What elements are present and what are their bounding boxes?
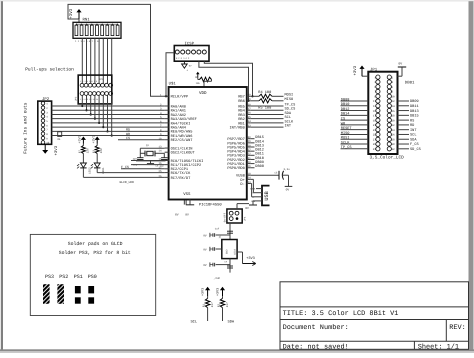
svg-text:28: 28: [391, 138, 395, 141]
svg-text:28: 28: [248, 144, 252, 147]
svg-text:0V: 0V: [398, 61, 402, 65]
svg-text:0V: 0V: [185, 213, 189, 216]
svg-text:Future Ins and outs: Future Ins and outs: [23, 102, 29, 154]
svg-text:0V: 0V: [203, 234, 207, 237]
svg-text:1 2 3 4 5 6 7 8 9: 1 2 3 4 5 6 7 8 9: [75, 40, 99, 43]
svg-text:33: 33: [248, 124, 252, 127]
svg-text:MOSI: MOSI: [341, 136, 350, 141]
svg-text:RD: RD: [410, 123, 414, 128]
svg-text:32: 32: [391, 148, 395, 151]
svg-text:25: 25: [373, 134, 377, 137]
svg-text:OSC2/CLKOUT: OSC2/CLKOUT: [171, 151, 196, 156]
svg-text:PS3: PS3: [45, 274, 54, 280]
svg-text:DB11: DB11: [410, 104, 419, 109]
svg-text:CS: CS: [126, 136, 130, 140]
svg-text:PS1: PS1: [74, 274, 83, 280]
svg-text:RESET: RESET: [341, 126, 353, 131]
svg-text:10: 10: [391, 95, 395, 98]
svg-text:GLCD_LED: GLCD_LED: [120, 181, 135, 184]
svg-text:JP4: JP4: [244, 216, 247, 221]
svg-text:DB12: DB12: [341, 107, 350, 112]
svg-text:U$1: U$1: [169, 81, 177, 86]
svg-text:PIC18F4550: PIC18F4550: [199, 202, 223, 207]
svg-text:18: 18: [391, 115, 395, 118]
svg-text:DB15: DB15: [410, 114, 419, 119]
svg-text:Solder pads on GLCD: Solder pads on GLCD: [68, 241, 123, 247]
svg-text:11: 11: [373, 100, 377, 103]
svg-text:SOSC: SOSC: [133, 158, 139, 161]
svg-text:0V: 0V: [203, 248, 207, 251]
svg-text:26: 26: [158, 175, 162, 178]
svg-text:0V: 0V: [245, 207, 249, 210]
svg-text:On-Off: On-Off: [223, 213, 226, 223]
svg-text:+3V3: +3V3: [54, 145, 59, 155]
svg-text:R3: R3: [92, 150, 95, 154]
svg-text:+3V3: +3V3: [246, 256, 255, 261]
svg-text:DB09: DB09: [410, 99, 419, 104]
svg-text:DB08: DB08: [341, 97, 350, 102]
svg-text:D-: D-: [240, 182, 244, 187]
svg-text:SCL: SCL: [410, 133, 416, 138]
svg-text:LE33: LE33: [233, 248, 236, 254]
svg-text:12: 12: [391, 100, 395, 103]
svg-text:23: 23: [248, 181, 252, 184]
svg-text:19: 19: [373, 119, 377, 122]
svg-text:38: 38: [248, 103, 252, 106]
svg-text:36: 36: [248, 112, 252, 115]
svg-text:SCL: SCL: [190, 320, 197, 325]
svg-text:4k7: 4k7: [210, 302, 214, 307]
svg-text:R7: R7: [79, 150, 82, 154]
svg-text:SDA: SDA: [410, 137, 417, 142]
svg-text:TITLE: 3.5 Color LCD 8Bit V1: TITLE: 3.5 Color LCD 8Bit V1: [283, 310, 399, 318]
svg-text:MISO: MISO: [285, 97, 294, 102]
svg-text:RB7: RB7: [238, 95, 245, 100]
svg-text:39: 39: [248, 98, 252, 101]
svg-text:DB14: DB14: [341, 112, 350, 117]
svg-text:MOSI: MOSI: [285, 93, 294, 98]
svg-text:Sheet: 1/1: Sheet: 1/1: [418, 344, 459, 352]
svg-text:2 4 6 8 10 12 14: 2 4 6 8 10 12 14: [80, 98, 99, 101]
svg-text:MISO: MISO: [341, 131, 350, 136]
svg-text:,3uF: ,3uF: [214, 277, 221, 280]
svg-text:Document Number:: Document Number:: [283, 324, 349, 332]
svg-text:13: 13: [373, 105, 377, 108]
svg-text:37: 37: [248, 108, 252, 111]
svg-text:21: 21: [373, 124, 377, 127]
svg-text:VSS: VSS: [183, 192, 191, 197]
svg-text:RC7/RX/DT: RC7/RX/DT: [171, 176, 191, 181]
svg-text:Solder PS3, PS2 for 8 bit: Solder PS3, PS2 for 8 bit: [59, 250, 131, 256]
svg-text:F_CS: F_CS: [121, 165, 129, 169]
svg-text:15: 15: [158, 158, 162, 161]
svg-text:17: 17: [373, 115, 377, 118]
svg-text:0V: 0V: [286, 188, 290, 191]
svg-text:34: 34: [248, 120, 252, 123]
svg-text:REV:: REV:: [449, 324, 466, 332]
svg-text:PSP0/RD0: PSP0/RD0: [227, 166, 244, 171]
svg-text:INT/RB0: INT/RB0: [230, 126, 245, 131]
svg-text:DB01: DB01: [405, 80, 415, 85]
svg-text:R2: R2: [217, 304, 220, 308]
svg-text:USB: USB: [264, 191, 270, 200]
svg-text:CS: CS: [341, 117, 345, 122]
svg-text:27: 27: [248, 148, 252, 151]
svg-text:PS0: PS0: [88, 274, 97, 280]
svg-text:18: 18: [248, 173, 252, 176]
svg-text:PS2: PS2: [59, 274, 68, 280]
svg-text:+3V3: +3V3: [200, 288, 205, 296]
svg-text:Date: not saved!: Date: not saved!: [283, 344, 349, 352]
svg-text:TP_CS: TP_CS: [341, 145, 352, 150]
svg-text:10k: 10k: [196, 82, 201, 85]
svg-text:+3V3: +3V3: [91, 135, 96, 143]
svg-text:22: 22: [248, 153, 252, 156]
svg-text:0V: 0V: [175, 213, 179, 216]
svg-text:15: 15: [373, 110, 377, 113]
svg-text:19: 19: [248, 165, 252, 168]
svg-text:17: 17: [158, 166, 162, 169]
svg-text:SCLK: SCLK: [341, 140, 350, 145]
svg-text:10: 10: [46, 142, 50, 145]
svg-text:VDD: VDD: [199, 91, 207, 96]
svg-text:30: 30: [248, 136, 252, 139]
svg-text:+3V3: +3V3: [353, 65, 358, 75]
svg-text:29: 29: [373, 143, 377, 146]
svg-text:INT: INT: [410, 128, 417, 133]
svg-text:26: 26: [391, 134, 395, 137]
svg-text:RS: RS: [410, 118, 414, 123]
svg-text:35: 35: [248, 116, 252, 119]
svg-text:JP3: JP3: [75, 96, 78, 101]
svg-text:IC2: IC2: [218, 234, 221, 239]
svg-text:SD_CS: SD_CS: [410, 147, 421, 152]
svg-text:MCLR/VPP: MCLR/VPP: [171, 95, 188, 100]
svg-text:4k7: 4k7: [225, 302, 229, 307]
svg-text:23: 23: [373, 129, 377, 132]
svg-text:DB08: DB08: [255, 164, 264, 169]
svg-text:3,5_Color_LCD: 3,5_Color_LCD: [370, 155, 405, 161]
svg-text:40: 40: [248, 94, 252, 97]
svg-text:R1: R1: [202, 304, 205, 308]
svg-text:14: 14: [158, 150, 162, 153]
svg-text:24: 24: [248, 177, 252, 180]
svg-text:10: 10: [158, 137, 162, 140]
svg-text:F_CS: F_CS: [410, 142, 419, 147]
svg-text:220: 220: [100, 148, 103, 153]
svg-text:16: 16: [391, 110, 395, 113]
svg-text:20: 20: [391, 119, 395, 122]
svg-text:30: 30: [391, 143, 395, 146]
svg-text:21: 21: [248, 157, 252, 160]
svg-text:SDA: SDA: [228, 320, 235, 325]
svg-text:1 2 3 4 5 6 7 8: 1 2 3 4 5 6 7 8: [80, 80, 98, 83]
svg-text:3,3u: 3,3u: [284, 168, 291, 171]
svg-text:DB13: DB13: [410, 109, 419, 114]
svg-text:0V: 0V: [203, 264, 207, 267]
svg-text:+3V3: +3V3: [215, 288, 220, 296]
svg-text:20: 20: [248, 161, 252, 164]
svg-text:16: 16: [158, 162, 162, 165]
svg-text:27: 27: [373, 138, 377, 141]
svg-text:22: 22: [391, 124, 395, 127]
svg-text:DB10: DB10: [341, 102, 350, 107]
svg-text:31: 31: [373, 148, 377, 151]
svg-text:13: 13: [158, 146, 162, 149]
svg-text:24: 24: [391, 129, 395, 132]
svg-text:+3V3: +3V3: [78, 135, 83, 143]
svg-text:GND: GND: [226, 249, 229, 254]
svg-text:14: 14: [391, 105, 395, 108]
svg-text:RC6/TX/CK: RC6/TX/CK: [171, 171, 191, 176]
svg-text:RB6: RB6: [238, 99, 245, 104]
svg-text:RE2/CS/AN7: RE2/CS/AN7: [171, 138, 193, 143]
svg-text:M C D 3 G P: M C D 3 G P: [176, 57, 190, 60]
svg-text:+3V3: +3V3: [69, 8, 74, 19]
svg-text:JP3: JP3: [99, 78, 104, 81]
svg-text:Pull-ups selection: Pull-ups selection: [25, 66, 74, 72]
svg-text:1uF: 1uF: [215, 228, 220, 231]
svg-text:INT: INT: [285, 124, 292, 129]
svg-text:29: 29: [248, 140, 252, 143]
svg-text:25: 25: [158, 170, 162, 173]
svg-text:220: 220: [86, 148, 89, 153]
